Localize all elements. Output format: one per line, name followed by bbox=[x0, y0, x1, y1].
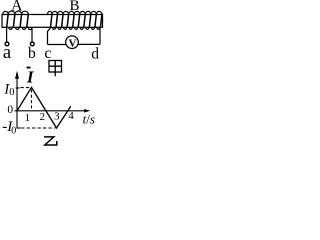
terminal b bbox=[30, 42, 34, 46]
wire voltmeter to node d bbox=[78, 43, 100, 45]
graph x-axis bbox=[15, 110, 86, 112]
dash mark left of jia bbox=[27, 67, 31, 69]
svg-text:b: b bbox=[28, 45, 36, 62]
dashed line at -I0 bbox=[21, 127, 55, 129]
svg-text:s: s bbox=[90, 111, 95, 126]
svg-text:I: I bbox=[26, 68, 35, 87]
svg-text:2: 2 bbox=[40, 111, 46, 123]
tick -I0 bbox=[17, 127, 21, 129]
voltmeter V bbox=[66, 36, 79, 49]
svg-text:0: 0 bbox=[11, 125, 16, 136]
tick I0 bbox=[16, 87, 20, 89]
coil B right lead wire bbox=[99, 28, 101, 45]
figure label yi bbox=[44, 137, 57, 145]
y-axis arrowhead bbox=[15, 71, 19, 79]
coil A windings bbox=[3, 11, 32, 29]
coil A right lead to terminal b bbox=[31, 28, 33, 42]
terminal a bbox=[5, 42, 9, 46]
svg-text:d: d bbox=[91, 45, 99, 62]
dashed vertical at t=1 bbox=[31, 90, 33, 111]
svg-text:c: c bbox=[44, 45, 51, 62]
figure label jia bbox=[49, 61, 62, 77]
svg-text:a: a bbox=[3, 43, 11, 63]
dashed line at I0 bbox=[21, 87, 31, 89]
wire c to voltmeter bbox=[48, 44, 67, 46]
x-axis arrowhead bbox=[84, 109, 90, 113]
svg-text:1: 1 bbox=[25, 112, 31, 124]
svg-text:0: 0 bbox=[9, 87, 14, 98]
svg-text:3: 3 bbox=[54, 110, 60, 122]
svg-text:0: 0 bbox=[7, 104, 13, 116]
coil A left lead to terminal a bbox=[6, 28, 8, 42]
svg-text:4: 4 bbox=[68, 110, 74, 122]
graph y-axis bbox=[16, 73, 18, 128]
coil B left lead wire down to node c bbox=[48, 28, 51, 45]
svg-text:V: V bbox=[69, 37, 77, 49]
coil B windings bbox=[48, 11, 102, 29]
current waveform bbox=[17, 87, 71, 128]
iron core bar bbox=[2, 15, 103, 28]
